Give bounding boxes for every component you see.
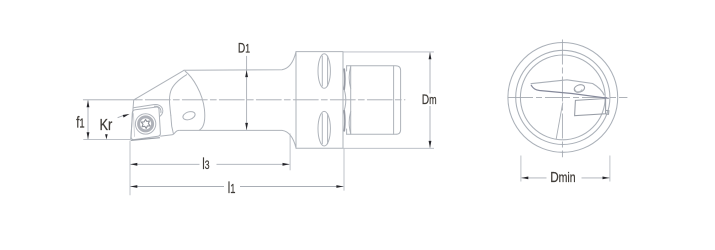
svg-text:Dm: Dm	[422, 91, 437, 107]
svg-text:Kr: Kr	[100, 117, 113, 135]
svg-text:Dmin: Dmin	[550, 169, 575, 186]
svg-text:l1: l1	[228, 179, 236, 196]
